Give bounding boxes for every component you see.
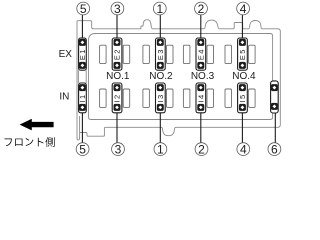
- valve shim EX3R: [167, 45, 174, 63]
- svg-text:I4: I4: [196, 93, 205, 102]
- valve shim IN2L: [100, 89, 107, 107]
- IN cap bolt 5 lower: [239, 104, 246, 111]
- tightening order number bottom 2: [195, 143, 208, 157]
- IN cap bolt 1 lower: [79, 104, 86, 111]
- svg-text:6: 6: [271, 143, 278, 157]
- valve shim IN5L: [225, 89, 232, 107]
- camshaft bearing cap E4: [196, 38, 206, 70]
- svg-text:NO.4: NO.4: [232, 71, 256, 82]
- valve shim IN5R: [249, 89, 256, 107]
- svg-text:NO.2: NO.2: [149, 71, 173, 82]
- EX cap bolt 1 lower: [79, 62, 86, 69]
- camshaft bearing cap E3: [156, 38, 166, 70]
- leader line to EX bolt 1: [159, 15, 161, 42]
- front journal side edges between caps E1 and I1: [78, 70, 86, 83]
- svg-text:3: 3: [115, 143, 122, 157]
- valve shim EX5L: [225, 45, 232, 63]
- valve shim IN4L: [183, 89, 190, 107]
- EX cap bolt 3 upper: [157, 39, 164, 46]
- valve shim EX4R: [207, 45, 214, 63]
- valve shim EX5R: [249, 45, 256, 63]
- leader line to IN bolt 1: [159, 107, 161, 142]
- svg-text:1: 1: [157, 143, 164, 157]
- EX cap bolt 5 lower: [239, 62, 246, 69]
- tightening order number bottom 5: [76, 143, 89, 157]
- EX cap bolt 1 upper: [79, 39, 86, 46]
- svg-text:E4: E4: [196, 48, 205, 60]
- tightening order number bottom 4: [237, 143, 250, 157]
- front face edge below cap I1: [79, 116, 81, 133]
- svg-text:4: 4: [240, 2, 247, 16]
- valve shim EX2L: [100, 45, 107, 63]
- EX cap bolt 2 upper: [114, 39, 121, 46]
- svg-text:I1: I1: [78, 93, 87, 102]
- rear cap bolt lower: [271, 103, 278, 110]
- IN cap bolt 3 upper: [157, 84, 164, 91]
- IN cap bolt 3 lower: [157, 104, 164, 111]
- front direction arrow: [20, 119, 54, 131]
- tightening order number top 1: [153, 2, 166, 16]
- svg-text:IN: IN: [59, 92, 69, 103]
- EX cap bolt 3 lower: [157, 62, 164, 69]
- IN cap bolt 2 upper: [114, 84, 121, 91]
- EX cap bolt 2 lower: [114, 62, 121, 69]
- svg-text:I5: I5: [238, 93, 247, 102]
- svg-text:2: 2: [198, 143, 205, 157]
- valve shim EX2R: [123, 45, 130, 63]
- EX cap bolt 5 upper: [239, 39, 246, 46]
- svg-text:I3: I3: [156, 93, 165, 102]
- EX cap bolt 4 upper: [197, 39, 204, 46]
- svg-text:I2: I2: [113, 93, 122, 102]
- valve shim IN2R: [123, 89, 130, 107]
- svg-text:NO.1: NO.1: [106, 71, 130, 82]
- leader line to IN bolt 3: [116, 107, 118, 142]
- camshaft deck platform outline: [89, 34, 273, 120]
- camshaft bearing cap E1: [78, 38, 87, 70]
- svg-text:NO.3: NO.3: [191, 71, 215, 82]
- svg-text:2: 2: [198, 2, 205, 16]
- svg-text:E1: E1: [78, 48, 87, 60]
- label フロント側 (front side): [4, 137, 54, 147]
- svg-text:E3: E3: [156, 48, 165, 60]
- rear cap bolt upper: [271, 84, 278, 91]
- IN cap bolt 5 upper: [239, 84, 246, 91]
- svg-text:E2: E2: [113, 48, 122, 60]
- tightening order number bottom 6: [268, 143, 281, 157]
- rear camshaft cap: [271, 81, 279, 113]
- valve shim IN4R: [207, 89, 214, 107]
- leader line to EX bolt 4: [241, 15, 243, 42]
- leader line to EX bolt 5: [81, 15, 83, 42]
- svg-text:3: 3: [114, 2, 121, 16]
- camshaft bearing cap I4: [196, 83, 206, 113]
- svg-text:4: 4: [240, 143, 247, 157]
- camshaft bearing cap E5: [238, 38, 248, 70]
- svg-text:1: 1: [156, 2, 163, 16]
- camshaft bearing cap I5: [238, 83, 248, 113]
- camshaft bearing cap I1: [78, 83, 87, 113]
- tightening order number top 5: [77, 2, 90, 16]
- valve shim EX3L: [143, 45, 150, 63]
- leader line to EX bolt 2: [200, 15, 202, 42]
- leader line to IN bolt 5: [81, 107, 83, 142]
- tightening order number bottom 3: [112, 143, 125, 157]
- camshaft bearing cap E2: [112, 38, 122, 70]
- leader line to EX bolt 3: [116, 15, 118, 42]
- cylinder head outer outline: [77, 20, 280, 140]
- camshaft bearing cap I3: [156, 83, 166, 113]
- valve shim EX4L: [183, 45, 190, 63]
- leader line to IN bolt 2: [200, 107, 202, 142]
- leader line to IN bolt 4: [241, 107, 243, 142]
- tightening order number bottom 1: [154, 143, 167, 157]
- IN cap bolt 4 upper: [197, 84, 204, 91]
- svg-text:5: 5: [79, 143, 86, 157]
- svg-text:5: 5: [80, 2, 87, 16]
- IN cap bolt 4 lower: [197, 104, 204, 111]
- valve shim IN3R: [167, 89, 174, 107]
- EX cap bolt 4 lower: [197, 62, 204, 69]
- svg-text:E5: E5: [238, 48, 247, 60]
- IN cap bolt 1 upper: [79, 84, 86, 91]
- svg-text:EX: EX: [59, 49, 73, 60]
- valve shim IN3L: [143, 89, 150, 107]
- tightening order number top 3: [111, 2, 124, 16]
- tightening order number top 4: [237, 2, 250, 16]
- leader line to rear cap bolt 6: [274, 107, 276, 143]
- camshaft bearing cap I2: [112, 83, 122, 113]
- tightening order number top 2: [195, 2, 208, 16]
- IN cap bolt 2 lower: [114, 104, 121, 111]
